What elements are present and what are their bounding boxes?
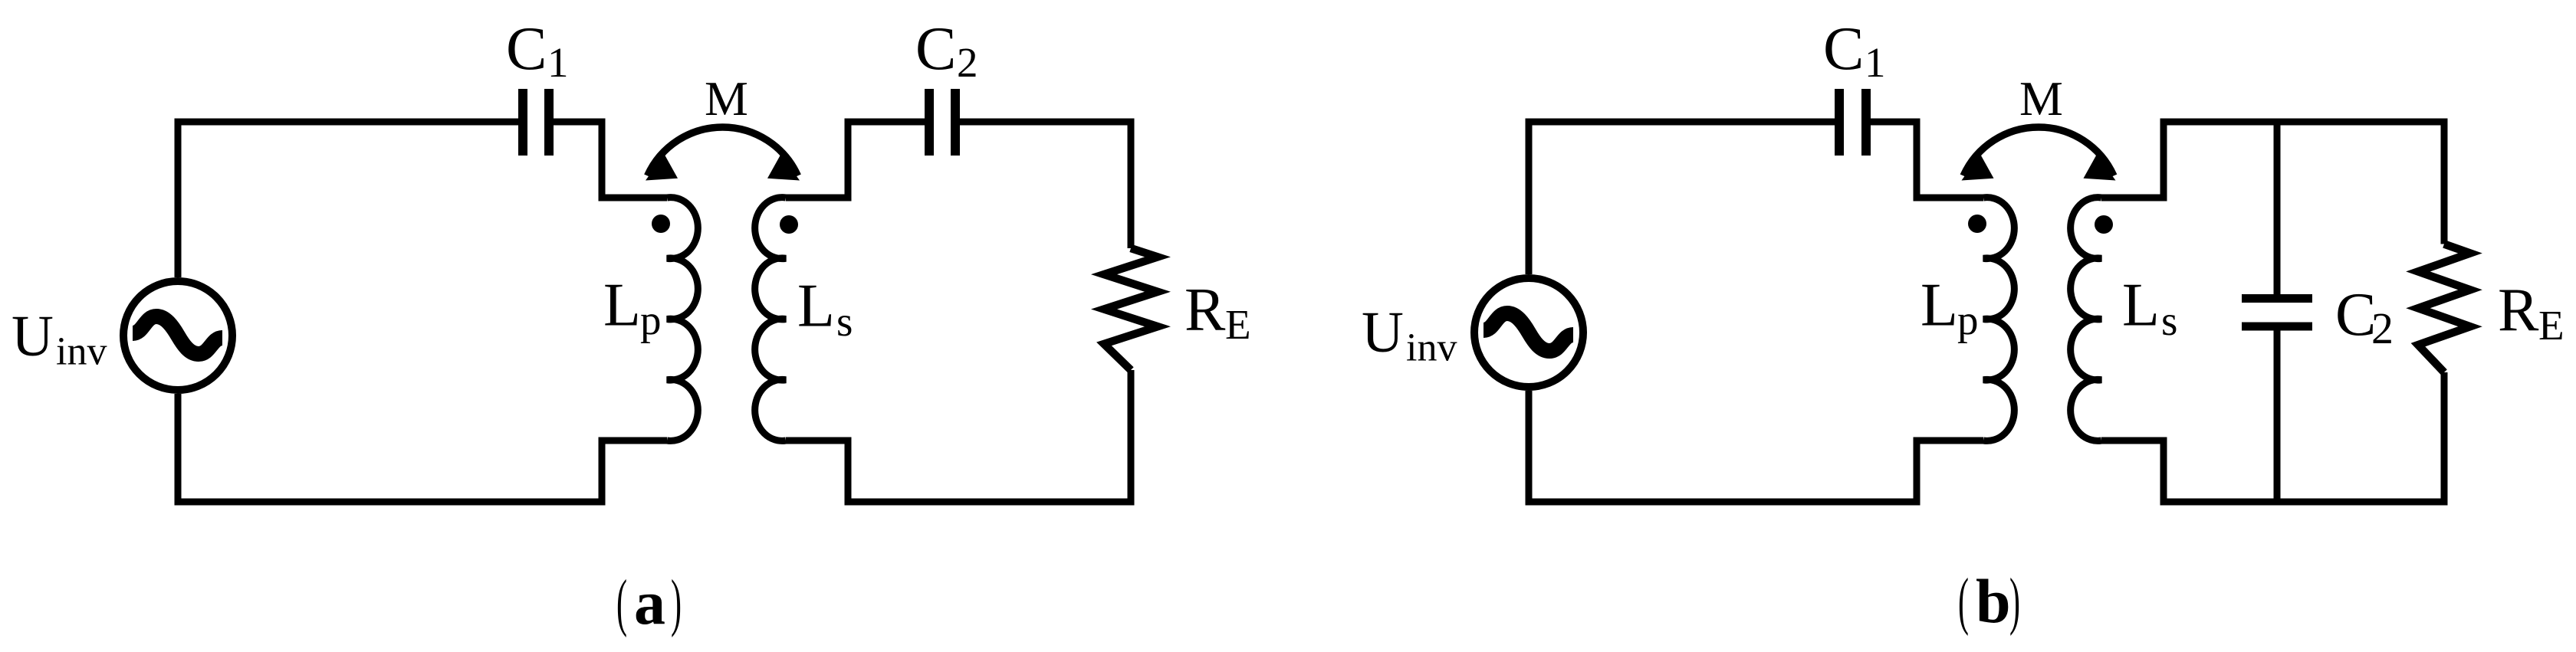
polarity dot Lp (a) (652, 215, 670, 233)
AC source Uinv (b) (1474, 278, 1583, 387)
wire top left (b): source to C1 (1529, 122, 1835, 160)
svg-text:): ) (671, 567, 682, 638)
mutual inductance arrow M (a) (646, 127, 800, 181)
wire top right (b): C1 to Lp (1870, 122, 1983, 198)
svg-text:1: 1 (547, 39, 569, 86)
wire C2 branch top (b) (2274, 122, 2281, 299)
label M (a) (705, 71, 748, 126)
svg-text:E: E (1225, 301, 1251, 348)
svg-text:L: L (2122, 272, 2160, 339)
wire left vertical top (b) (1526, 122, 1533, 274)
wire top left (a secondary): Ls to C2 (786, 122, 925, 198)
svg-text:s: s (2161, 297, 2177, 344)
label C1 (b) (1823, 15, 1886, 86)
resistor RE (a) (1104, 248, 1158, 370)
svg-text:L: L (1921, 272, 1958, 339)
inductor Ls (b) (2071, 198, 2101, 441)
svg-text:M: M (705, 71, 748, 126)
svg-text:C: C (915, 15, 956, 83)
svg-text:p: p (640, 297, 662, 344)
polarity dot Ls (a) (780, 215, 798, 234)
wire top left (a): source to C1 (178, 122, 519, 160)
svg-text:C: C (506, 15, 547, 83)
label Ls (a) (797, 273, 853, 346)
wire bottom (a secondary): RE to Ls (786, 370, 1131, 502)
label Uinv (a) (11, 304, 107, 374)
label M (b) (2019, 71, 2063, 126)
polarity dot Lp (b) (1968, 215, 1986, 233)
inductor Ls (a) (755, 198, 786, 441)
wire bottom (a): Lp to source (178, 441, 667, 502)
svg-text:(: ( (616, 567, 627, 638)
caption (a) (616, 567, 682, 638)
svg-text:s: s (836, 298, 853, 345)
svg-text:1: 1 (1865, 39, 1886, 86)
caption (b) (1958, 565, 2020, 637)
capacitor C1 (a) (523, 89, 549, 156)
capacitor C2 (a) (929, 89, 955, 156)
svg-text:U: U (11, 304, 54, 369)
wire bottom (b): Lp to source (1529, 441, 1983, 502)
label RE (a) (1184, 277, 1251, 349)
svg-text:b: b (1976, 566, 2011, 636)
svg-text:C: C (1823, 15, 1864, 83)
wire top (b secondary): Ls to C2 to RE (2101, 122, 2444, 244)
svg-text:R: R (2498, 277, 2539, 344)
svg-text:2: 2 (957, 39, 978, 86)
svg-text:L: L (603, 272, 641, 339)
svg-text:inv: inv (56, 330, 107, 374)
svg-text:C: C (2335, 281, 2376, 349)
label C2 (b) (2335, 281, 2394, 353)
svg-text:a: a (634, 568, 665, 637)
capacitor C1 (b) (1839, 89, 1866, 156)
wire left vertical bottom (a) (175, 394, 182, 502)
label RE (b) (2498, 277, 2564, 349)
wire C2 branch bottom (b) (2274, 326, 2281, 502)
polarity dot Ls (b) (2095, 215, 2113, 234)
svg-text:R: R (1184, 277, 1226, 344)
resistor RE (b) (2418, 244, 2470, 373)
svg-text:U: U (1362, 300, 1404, 365)
inductor Lp (a) (667, 198, 698, 441)
wire top right (a): C1 to Lp (553, 122, 667, 198)
wire top right (a secondary): C2 to RE (959, 122, 1131, 248)
svg-text:p: p (1957, 297, 1979, 344)
label Ls (b) (2122, 272, 2177, 345)
svg-text:M: M (2019, 71, 2063, 126)
wire left vertical top (a) (175, 122, 182, 277)
svg-text:): ) (2009, 565, 2020, 637)
capacitor C2 (b) (2242, 299, 2312, 327)
svg-text:(: ( (1958, 565, 1969, 637)
wire left vertical bottom (b) (1526, 391, 1533, 502)
svg-text:E: E (2538, 302, 2564, 349)
inductor Lp (b) (1983, 198, 2014, 441)
label Lp (a) (603, 272, 662, 344)
mutual inductance arrow M (b) (1962, 127, 2116, 181)
label C1 (a) (506, 15, 569, 86)
label Uinv (b) (1362, 300, 1457, 370)
label Lp (b) (1921, 272, 1979, 344)
svg-text:L: L (797, 273, 835, 340)
svg-text:2: 2 (2371, 303, 2394, 353)
AC source Uinv (a) (123, 281, 232, 390)
wire bottom (b secondary): RE to Ls (2101, 372, 2444, 502)
svg-text:inv: inv (1406, 326, 1457, 370)
label C2 (a) (915, 15, 978, 86)
